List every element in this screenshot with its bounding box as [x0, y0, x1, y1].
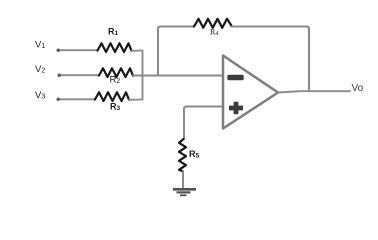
wire R1 to node [132, 50, 143, 52]
wire summing node to op-amp inverting input [133, 75, 223, 77]
op-amp U1 triangle [223, 56, 278, 129]
ground [173, 189, 196, 195]
wire op-amp non-inverting input and drop to R5 [184, 107, 223, 140]
wire R4 top run and right drop to output node [232, 27, 309, 92]
svg-text:R2: R2 [110, 75, 121, 86]
wire vertical joining R1,R2,R3 [142, 51, 144, 100]
node V3 wire start cap [57, 98, 60, 101]
wire R5 to ground [182, 172, 184, 188]
svg-text:V1: V1 [35, 40, 45, 51]
resistor R4 [194, 19, 232, 28]
wire output to Vo [278, 91, 350, 92]
resistor R3 [95, 92, 129, 101]
wire R3 to node [129, 99, 143, 101]
svg-text:R4: R4 [210, 28, 218, 37]
wire V1 lead [58, 49, 98, 51]
svg-text:V2: V2 [35, 64, 45, 75]
svg-text:Vo: Vo [352, 83, 364, 94]
wire V3 lead [58, 98, 95, 100]
svg-text:R1: R1 [108, 26, 119, 37]
node V1 wire start cap [57, 49, 60, 52]
op-amp plus symbol [229, 102, 243, 114]
op-amp minus symbol [227, 75, 243, 80]
resistor R2 [99, 68, 133, 77]
wire feedback riser and top run to R4 [158, 27, 194, 76]
wire V2 lead [59, 74, 99, 76]
svg-text:R5: R5 [189, 149, 200, 160]
node V2 wire start cap [58, 74, 61, 77]
svg-text:R3: R3 [110, 102, 121, 113]
resistor R1 [98, 43, 132, 52]
svg-text:V3: V3 [35, 90, 45, 101]
resistor R5 [179, 139, 186, 172]
